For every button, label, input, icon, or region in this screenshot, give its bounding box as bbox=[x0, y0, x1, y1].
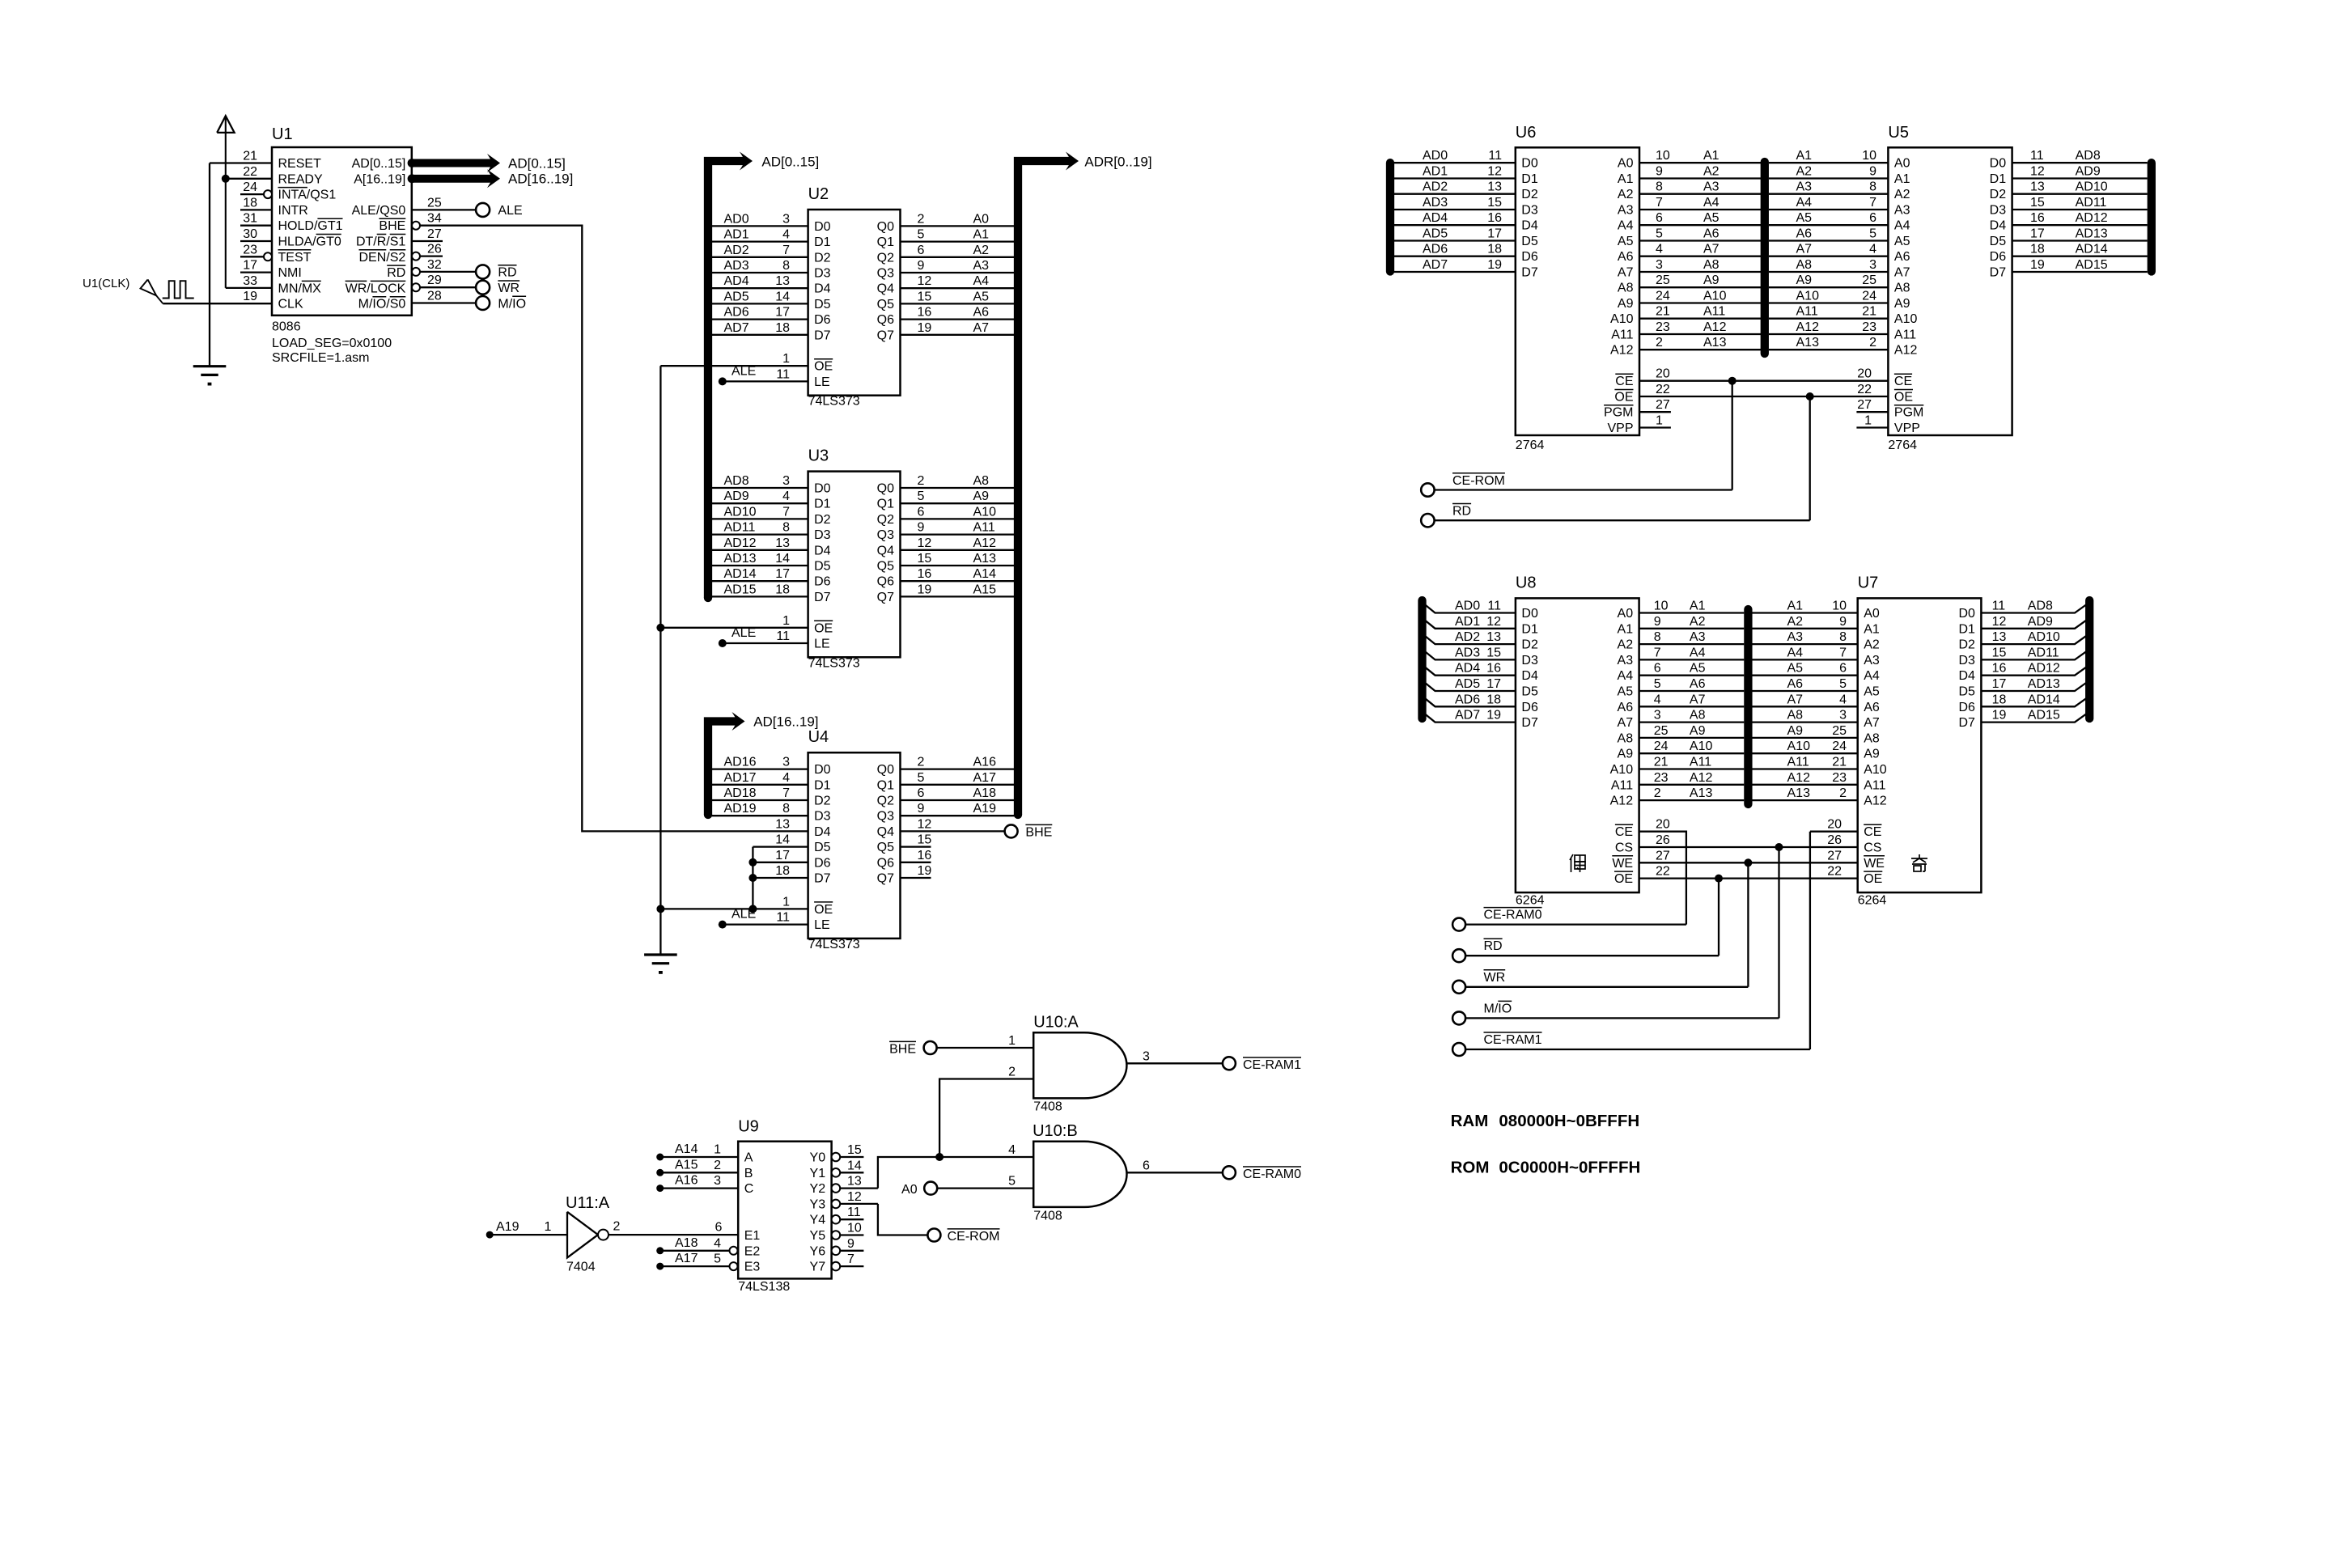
svg-text:2: 2 bbox=[1656, 336, 1663, 350]
svg-text:Q7: Q7 bbox=[877, 872, 894, 886]
svg-text:D0: D0 bbox=[814, 482, 831, 496]
U4 Q5 stub bbox=[901, 845, 931, 847]
svg-text:17: 17 bbox=[775, 567, 790, 581]
bus AD[8..15] stub at U5 bbox=[2148, 163, 2156, 271]
svg-text:A9: A9 bbox=[1690, 724, 1706, 738]
svg-text:Y4: Y4 bbox=[810, 1214, 826, 1227]
svg-text:A0: A0 bbox=[901, 1183, 918, 1197]
svg-text:D1: D1 bbox=[1958, 622, 1975, 636]
svg-text:LOAD_SEG=0x0100: LOAD_SEG=0x0100 bbox=[272, 337, 392, 350]
wire OE U6 to U5 bbox=[1639, 396, 1888, 397]
svg-text:4: 4 bbox=[1656, 243, 1663, 256]
svg-text:21: 21 bbox=[1862, 305, 1876, 319]
bus AD[0..7] stub at U6 bbox=[1386, 163, 1394, 271]
U8 pin D6 wire AD6 bbox=[1423, 696, 1516, 706]
svg-text:A2: A2 bbox=[1864, 638, 1880, 652]
U7 pin A1 wire A2 bbox=[1753, 628, 1858, 629]
svg-text:19: 19 bbox=[1992, 709, 2007, 723]
U6 PGM stub bbox=[1639, 411, 1671, 413]
svg-text:2: 2 bbox=[714, 1159, 721, 1172]
U5 pin A4 wire A5 bbox=[1769, 224, 1888, 226]
svg-text:4: 4 bbox=[782, 228, 790, 242]
U7 pin A3 wire A4 bbox=[1753, 659, 1858, 660]
svg-text:AD7: AD7 bbox=[1423, 258, 1448, 272]
U2 pin Q2 wire A2 bbox=[901, 256, 1018, 258]
svg-text:AD5: AD5 bbox=[1455, 677, 1480, 691]
svg-text:10: 10 bbox=[847, 1222, 862, 1235]
svg-text:2764: 2764 bbox=[1888, 439, 1917, 452]
svg-text:AD7: AD7 bbox=[724, 321, 749, 335]
svg-text:A6: A6 bbox=[1618, 250, 1634, 264]
svg-text:Q4: Q4 bbox=[877, 825, 894, 839]
U5 pin A6 wire A7 bbox=[1769, 256, 1888, 257]
wire U10:A output to CE-RAM1 terminal bbox=[1127, 1062, 1223, 1064]
U8 pin A5 wire A6 bbox=[1639, 690, 1745, 692]
svg-text:ROM: ROM bbox=[1451, 1158, 1490, 1176]
svg-text:Q7: Q7 bbox=[877, 328, 894, 342]
U8 pin A12 wire A13 bbox=[1639, 799, 1745, 801]
svg-text:A0: A0 bbox=[1618, 607, 1634, 621]
svg-text:1: 1 bbox=[782, 352, 790, 366]
svg-text:D2: D2 bbox=[1521, 638, 1538, 652]
svg-text:D0: D0 bbox=[814, 220, 831, 234]
svg-text:21: 21 bbox=[1654, 756, 1669, 769]
svg-text:24: 24 bbox=[1654, 740, 1669, 753]
svg-text:Q6: Q6 bbox=[877, 856, 894, 870]
svg-text:A7: A7 bbox=[1703, 243, 1720, 256]
U8 pin A2 wire A3 bbox=[1639, 643, 1745, 645]
U9 pin Y5 bubble and stub bbox=[832, 1231, 841, 1240]
svg-text:8: 8 bbox=[1869, 180, 1876, 194]
svg-text:74LS373: 74LS373 bbox=[808, 938, 860, 951]
svg-text:Y2: Y2 bbox=[810, 1182, 826, 1196]
svg-text:13: 13 bbox=[1992, 630, 2007, 644]
svg-text:RD: RD bbox=[1484, 939, 1503, 953]
U4 pin Q1 wire A17 bbox=[901, 784, 1018, 786]
wire OE common vertical to ground bbox=[659, 366, 661, 955]
svg-text:A19: A19 bbox=[496, 1220, 519, 1234]
svg-text:A: A bbox=[744, 1151, 753, 1165]
svg-text:A1: A1 bbox=[1787, 600, 1804, 613]
svg-text:WR: WR bbox=[1484, 971, 1506, 985]
svg-text:A18: A18 bbox=[973, 786, 997, 800]
U5 pin D5 wire AD13 bbox=[2012, 239, 2148, 241]
svg-text:LE: LE bbox=[814, 918, 830, 932]
svg-text:8: 8 bbox=[782, 521, 790, 535]
svg-text:E1: E1 bbox=[744, 1229, 761, 1243]
svg-text:AD3: AD3 bbox=[724, 259, 749, 273]
svg-text:Q1: Q1 bbox=[877, 778, 894, 792]
svg-text:A13: A13 bbox=[1787, 786, 1811, 800]
svg-text:M/IO: M/IO bbox=[498, 297, 526, 311]
svg-text:9: 9 bbox=[1656, 165, 1663, 179]
svg-text:CE: CE bbox=[1615, 375, 1633, 388]
svg-text:D1: D1 bbox=[814, 498, 831, 511]
svg-text:15: 15 bbox=[1992, 646, 2007, 659]
svg-text:1: 1 bbox=[714, 1143, 721, 1157]
U6 pin D1 wire AD1 bbox=[1390, 177, 1516, 179]
svg-text:AD14: AD14 bbox=[724, 567, 757, 581]
svg-text:AD7: AD7 bbox=[1455, 709, 1480, 723]
svg-text:AD17: AD17 bbox=[724, 771, 757, 785]
svg-text:A4: A4 bbox=[1618, 669, 1634, 683]
svg-text:D0: D0 bbox=[1521, 607, 1538, 621]
U7 pin D1 wire AD9 bbox=[1981, 618, 2089, 629]
U6 VPP stub bbox=[1639, 426, 1671, 428]
svg-text:22: 22 bbox=[1827, 865, 1842, 879]
svg-text:22: 22 bbox=[1656, 865, 1670, 879]
U5 pin D4 wire AD12 bbox=[2012, 224, 2148, 226]
svg-text:7404: 7404 bbox=[566, 1261, 596, 1274]
svg-text:27: 27 bbox=[427, 227, 442, 241]
svg-text:A2: A2 bbox=[1703, 165, 1720, 179]
svg-text:23: 23 bbox=[1654, 771, 1669, 785]
U2 pin D1 wire AD1 bbox=[709, 240, 808, 242]
svg-text:A1: A1 bbox=[1894, 172, 1910, 186]
U3 pin Q2 wire A10 bbox=[901, 518, 1018, 519]
svg-text:A2: A2 bbox=[1618, 188, 1634, 201]
svg-text:5: 5 bbox=[1008, 1175, 1016, 1189]
U6 pin A6 wire A7 bbox=[1639, 256, 1761, 257]
svg-text:A13: A13 bbox=[1796, 336, 1820, 350]
svg-text:Q6: Q6 bbox=[877, 575, 894, 589]
svg-text:8: 8 bbox=[782, 259, 790, 273]
svg-text:A6: A6 bbox=[1864, 701, 1880, 714]
svg-text:A7: A7 bbox=[973, 321, 990, 335]
chip U8 6264 RAM body bbox=[1516, 598, 1639, 892]
U3 pin D5 wire AD13 bbox=[709, 565, 808, 566]
U1 pin 17 NMI stub bbox=[240, 271, 272, 273]
svg-text:A11: A11 bbox=[1690, 756, 1711, 769]
svg-text:A3: A3 bbox=[1618, 654, 1634, 667]
svg-text:17: 17 bbox=[1992, 677, 2007, 691]
svg-text:AD11: AD11 bbox=[2076, 196, 2107, 210]
svg-text:OE: OE bbox=[814, 621, 833, 635]
svg-text:D1: D1 bbox=[814, 778, 831, 792]
U7 pin D2 wire AD10 bbox=[1981, 634, 2089, 644]
svg-text:A14: A14 bbox=[675, 1142, 698, 1156]
svg-text:7: 7 bbox=[1839, 646, 1847, 659]
svg-text:A4: A4 bbox=[1894, 219, 1910, 233]
svg-text:A5: A5 bbox=[973, 290, 990, 303]
U3 pin Q6 wire A14 bbox=[901, 580, 1018, 582]
wire inverter output to U9 E1 bbox=[609, 1234, 738, 1235]
svg-text:D6: D6 bbox=[814, 575, 831, 589]
svg-text:HOLD/GT1: HOLD/GT1 bbox=[278, 219, 343, 233]
U1 pin 18 INTR stub bbox=[240, 209, 272, 210]
svg-text:19: 19 bbox=[918, 864, 932, 878]
svg-text:9: 9 bbox=[918, 802, 925, 816]
terminal CE-RAM1 bbox=[1452, 1043, 1465, 1056]
svg-text:A13: A13 bbox=[973, 552, 997, 566]
svg-text:27: 27 bbox=[1656, 849, 1670, 862]
bus AD[0..7] stub at U8 bbox=[1418, 600, 1426, 718]
svg-text:11: 11 bbox=[1487, 600, 1501, 613]
U6 pin D3 wire AD3 bbox=[1390, 209, 1516, 210]
chip U2 74LS373 body bbox=[808, 210, 901, 396]
svg-text:RD: RD bbox=[1452, 505, 1471, 519]
svg-text:AD13: AD13 bbox=[724, 552, 757, 566]
svg-text:3: 3 bbox=[1654, 709, 1661, 723]
U4 pin D0 wire AD16 bbox=[709, 768, 808, 769]
svg-text:A5: A5 bbox=[1864, 685, 1880, 699]
svg-text:20: 20 bbox=[1656, 818, 1670, 832]
svg-text:13: 13 bbox=[847, 1175, 862, 1189]
glyph even-bank label in U8 bbox=[1570, 854, 1585, 872]
U7 pin D6 wire AD14 bbox=[1981, 696, 2089, 706]
U6 pin A2 wire A3 bbox=[1639, 193, 1761, 195]
svg-text:5: 5 bbox=[714, 1252, 721, 1266]
wire Y2 net up to U10:A pin 2 bbox=[939, 1079, 1033, 1158]
U3 pin D6 wire AD14 bbox=[709, 580, 808, 582]
svg-text:A0: A0 bbox=[1864, 607, 1880, 621]
wire WE common bbox=[1639, 862, 1858, 863]
svg-text:2: 2 bbox=[1869, 336, 1876, 350]
svg-text:A7: A7 bbox=[1690, 693, 1706, 706]
svg-text:A9: A9 bbox=[1787, 724, 1804, 738]
svg-text:Y3: Y3 bbox=[810, 1197, 826, 1211]
svg-text:AD10: AD10 bbox=[724, 505, 757, 519]
svg-text:D2: D2 bbox=[814, 251, 831, 265]
svg-text:1: 1 bbox=[545, 1220, 552, 1234]
svg-text:29: 29 bbox=[427, 273, 442, 287]
svg-text:AD9: AD9 bbox=[724, 489, 749, 503]
svg-text:A19: A19 bbox=[973, 802, 997, 816]
svg-text:A10: A10 bbox=[1796, 290, 1820, 303]
svg-text:Q5: Q5 bbox=[877, 298, 894, 311]
svg-text:CE-RAM1: CE-RAM1 bbox=[1243, 1058, 1301, 1072]
svg-text:A7: A7 bbox=[1618, 716, 1634, 730]
svg-text:AD6: AD6 bbox=[1423, 243, 1448, 256]
svg-text:15: 15 bbox=[847, 1143, 862, 1157]
svg-text:PGM: PGM bbox=[1604, 406, 1633, 420]
U8 pin D4 wire AD4 bbox=[1423, 665, 1516, 676]
svg-text:U6: U6 bbox=[1516, 124, 1537, 142]
svg-text:Q5: Q5 bbox=[877, 841, 894, 854]
svg-text:A10: A10 bbox=[1610, 312, 1634, 326]
svg-text:14: 14 bbox=[775, 290, 790, 303]
svg-text:7: 7 bbox=[782, 786, 790, 800]
svg-text:D4: D4 bbox=[814, 544, 831, 557]
svg-text:A9: A9 bbox=[1796, 273, 1813, 287]
svg-text:2764: 2764 bbox=[1516, 439, 1545, 452]
U3 pin LE wire with ALE net label bbox=[723, 642, 808, 644]
svg-text:A6: A6 bbox=[1618, 701, 1634, 714]
svg-text:20: 20 bbox=[1827, 818, 1842, 832]
wire CE U6 to U5 bbox=[1639, 380, 1888, 382]
U9 pin Y6 bubble and stub bbox=[832, 1247, 841, 1256]
svg-text:080000H~0BFFFH: 080000H~0BFFFH bbox=[1499, 1112, 1639, 1130]
svg-text:A11: A11 bbox=[973, 521, 995, 535]
svg-text:32: 32 bbox=[427, 258, 442, 272]
svg-text:D7: D7 bbox=[1958, 716, 1975, 730]
svg-text:9: 9 bbox=[847, 1237, 854, 1251]
svg-text:15: 15 bbox=[1486, 646, 1501, 659]
svg-text:A1: A1 bbox=[1703, 149, 1720, 163]
svg-text:Q3: Q3 bbox=[877, 267, 894, 281]
U2 pin D3 wire AD3 bbox=[709, 272, 808, 273]
svg-text:18: 18 bbox=[775, 864, 790, 878]
wire A18 to U9 E2 bbox=[656, 1247, 664, 1254]
svg-text:30: 30 bbox=[243, 227, 257, 241]
svg-text:6264: 6264 bbox=[1516, 894, 1545, 908]
svg-text:E2: E2 bbox=[744, 1244, 761, 1258]
svg-text:18: 18 bbox=[2030, 243, 2045, 256]
svg-text:Q0: Q0 bbox=[877, 763, 894, 777]
U4 pin OE wire bbox=[660, 908, 808, 909]
svg-text:25: 25 bbox=[1656, 273, 1670, 287]
U3 pin Q7 wire A15 bbox=[901, 595, 1018, 597]
svg-text:D6: D6 bbox=[814, 856, 831, 870]
wire A16 to U9 bbox=[656, 1184, 664, 1192]
svg-text:A3: A3 bbox=[1864, 654, 1880, 667]
svg-text:26: 26 bbox=[427, 243, 442, 256]
U5 pin D0 wire AD8 bbox=[2012, 162, 2148, 163]
svg-text:D1: D1 bbox=[814, 235, 831, 249]
U7 pin A12 wire A13 bbox=[1753, 799, 1858, 801]
svg-text:D4: D4 bbox=[1521, 219, 1538, 233]
wire BHE pin 34 to U4 D4 bbox=[412, 222, 420, 230]
svg-text:A8: A8 bbox=[1618, 282, 1634, 295]
svg-text:5: 5 bbox=[918, 228, 925, 242]
svg-text:A1: A1 bbox=[1796, 149, 1813, 163]
AND gate U10:A 7408 bbox=[1033, 1032, 1126, 1098]
svg-text:SRCFILE=1.asm: SRCFILE=1.asm bbox=[272, 351, 369, 365]
svg-text:AD[0..15]: AD[0..15] bbox=[508, 155, 566, 171]
wire VCC to MN/MX pin 33 bbox=[226, 287, 272, 289]
svg-text:AD18: AD18 bbox=[724, 786, 757, 800]
svg-text:CE-RAM0: CE-RAM0 bbox=[1484, 909, 1542, 922]
svg-text:READY: READY bbox=[278, 172, 323, 186]
svg-text:Q7: Q7 bbox=[877, 591, 894, 604]
U8 pin A7 wire A8 bbox=[1639, 721, 1745, 723]
U6 pin A10 wire A11 bbox=[1639, 318, 1761, 320]
svg-text:A1: A1 bbox=[1618, 172, 1634, 186]
svg-text:A12: A12 bbox=[1610, 795, 1634, 808]
svg-text:3: 3 bbox=[782, 756, 790, 769]
svg-text:6: 6 bbox=[918, 244, 925, 257]
power VCC arrow bbox=[217, 116, 234, 133]
svg-text:A11: A11 bbox=[1894, 328, 1916, 342]
svg-text:OE: OE bbox=[1894, 391, 1913, 405]
svg-text:A1: A1 bbox=[1618, 622, 1634, 636]
svg-text:19: 19 bbox=[1487, 258, 1502, 272]
svg-text:16: 16 bbox=[1486, 662, 1501, 676]
svg-text:AD15: AD15 bbox=[2076, 258, 2108, 272]
svg-text:AD[0..15]: AD[0..15] bbox=[761, 155, 819, 170]
svg-text:A11: A11 bbox=[1703, 305, 1725, 319]
svg-text:M/IO/S0: M/IO/S0 bbox=[358, 298, 406, 311]
svg-text:26: 26 bbox=[1656, 833, 1670, 847]
svg-text:A6: A6 bbox=[1690, 677, 1706, 691]
svg-text:1: 1 bbox=[782, 614, 790, 628]
U6 pin D4 wire AD4 bbox=[1390, 224, 1516, 226]
U7 pin D5 wire AD13 bbox=[1981, 680, 2089, 691]
svg-text:LE: LE bbox=[814, 638, 830, 651]
svg-text:1: 1 bbox=[782, 895, 790, 909]
svg-text:A6: A6 bbox=[1894, 250, 1910, 264]
U2 pin D7 wire AD7 bbox=[709, 334, 808, 336]
U7 pin A11 wire A12 bbox=[1753, 784, 1858, 786]
svg-text:1: 1 bbox=[1008, 1034, 1016, 1048]
svg-text:17: 17 bbox=[1487, 227, 1502, 241]
svg-text:M/IO: M/IO bbox=[1484, 1002, 1512, 1015]
svg-text:11: 11 bbox=[2030, 149, 2044, 163]
svg-text:DT/R/S1: DT/R/S1 bbox=[356, 235, 405, 249]
svg-text:D4: D4 bbox=[814, 825, 831, 839]
wire U8 CE to CE-RAM0 bbox=[1639, 832, 1686, 925]
svg-text:8: 8 bbox=[1654, 630, 1661, 644]
svg-text:WR/LOCK: WR/LOCK bbox=[346, 282, 406, 295]
U9 pin Y1 bubble and stub bbox=[832, 1168, 841, 1177]
wire A0 terminal to U10:B pin 5 bbox=[924, 1182, 937, 1195]
U1 pin 27 stub bbox=[412, 240, 443, 242]
U6 pin D6 wire AD6 bbox=[1390, 256, 1516, 257]
U8 pin D1 wire AD1 bbox=[1423, 618, 1516, 629]
svg-text:3: 3 bbox=[714, 1174, 721, 1188]
U8 pin D7 wire AD7 bbox=[1423, 712, 1516, 723]
svg-text:D3: D3 bbox=[1990, 204, 2007, 218]
svg-text:Y1: Y1 bbox=[810, 1167, 826, 1180]
svg-text:OE: OE bbox=[1864, 872, 1882, 886]
U5 pin A1 wire A2 bbox=[1769, 177, 1888, 179]
svg-text:A[16..19]: A[16..19] bbox=[354, 172, 405, 186]
U5 pin A12 wire A13 bbox=[1769, 349, 1888, 350]
svg-text:D0: D0 bbox=[1958, 607, 1975, 621]
svg-text:34: 34 bbox=[427, 212, 442, 226]
U8 pin A0 wire A1 bbox=[1639, 612, 1745, 613]
svg-text:A8: A8 bbox=[1787, 709, 1804, 723]
svg-text:20: 20 bbox=[1857, 367, 1872, 381]
svg-text:6: 6 bbox=[918, 505, 925, 519]
svg-text:15: 15 bbox=[1487, 196, 1502, 210]
svg-text:A3: A3 bbox=[1703, 180, 1720, 194]
svg-text:VPP: VPP bbox=[1894, 422, 1920, 435]
svg-text:3: 3 bbox=[782, 474, 790, 488]
svg-text:A18: A18 bbox=[675, 1236, 698, 1250]
svg-text:24: 24 bbox=[1862, 290, 1876, 303]
U4 pins D5-D7 tie wires bbox=[753, 845, 808, 847]
svg-text:10: 10 bbox=[1832, 600, 1847, 613]
terminal WR bbox=[1452, 981, 1465, 994]
svg-text:A12: A12 bbox=[1894, 344, 1918, 358]
svg-text:A10: A10 bbox=[1703, 290, 1727, 303]
svg-text:D1: D1 bbox=[1990, 172, 2007, 186]
svg-text:11: 11 bbox=[847, 1206, 861, 1219]
U6 pin A1 wire A2 bbox=[1639, 177, 1761, 179]
U8 pin A10 wire A11 bbox=[1639, 768, 1745, 769]
svg-text:3: 3 bbox=[782, 212, 790, 226]
wire U10:B output to CE-RAM0 terminal bbox=[1127, 1172, 1223, 1173]
svg-text:20: 20 bbox=[1656, 367, 1670, 381]
svg-text:22: 22 bbox=[1857, 383, 1872, 396]
svg-text:OE: OE bbox=[1614, 872, 1633, 886]
ground GND2 below U4 bbox=[644, 953, 677, 956]
svg-text:Q4: Q4 bbox=[877, 544, 894, 557]
wire A14 to U9 bbox=[656, 1154, 664, 1161]
svg-text:RD: RD bbox=[498, 266, 516, 280]
svg-text:OE: OE bbox=[814, 903, 833, 917]
svg-text:19: 19 bbox=[1486, 709, 1501, 723]
U3 pin Q4 wire A12 bbox=[901, 549, 1018, 551]
svg-text:9: 9 bbox=[918, 259, 925, 273]
svg-text:18: 18 bbox=[775, 583, 790, 596]
svg-text:U3: U3 bbox=[808, 447, 829, 465]
U2 pin LE wire with ALE net label bbox=[723, 380, 808, 382]
bus AD[0..15] vertical at latches bbox=[704, 594, 712, 602]
svg-text:15: 15 bbox=[918, 833, 932, 847]
svg-text:INTA/QS1: INTA/QS1 bbox=[278, 189, 337, 202]
